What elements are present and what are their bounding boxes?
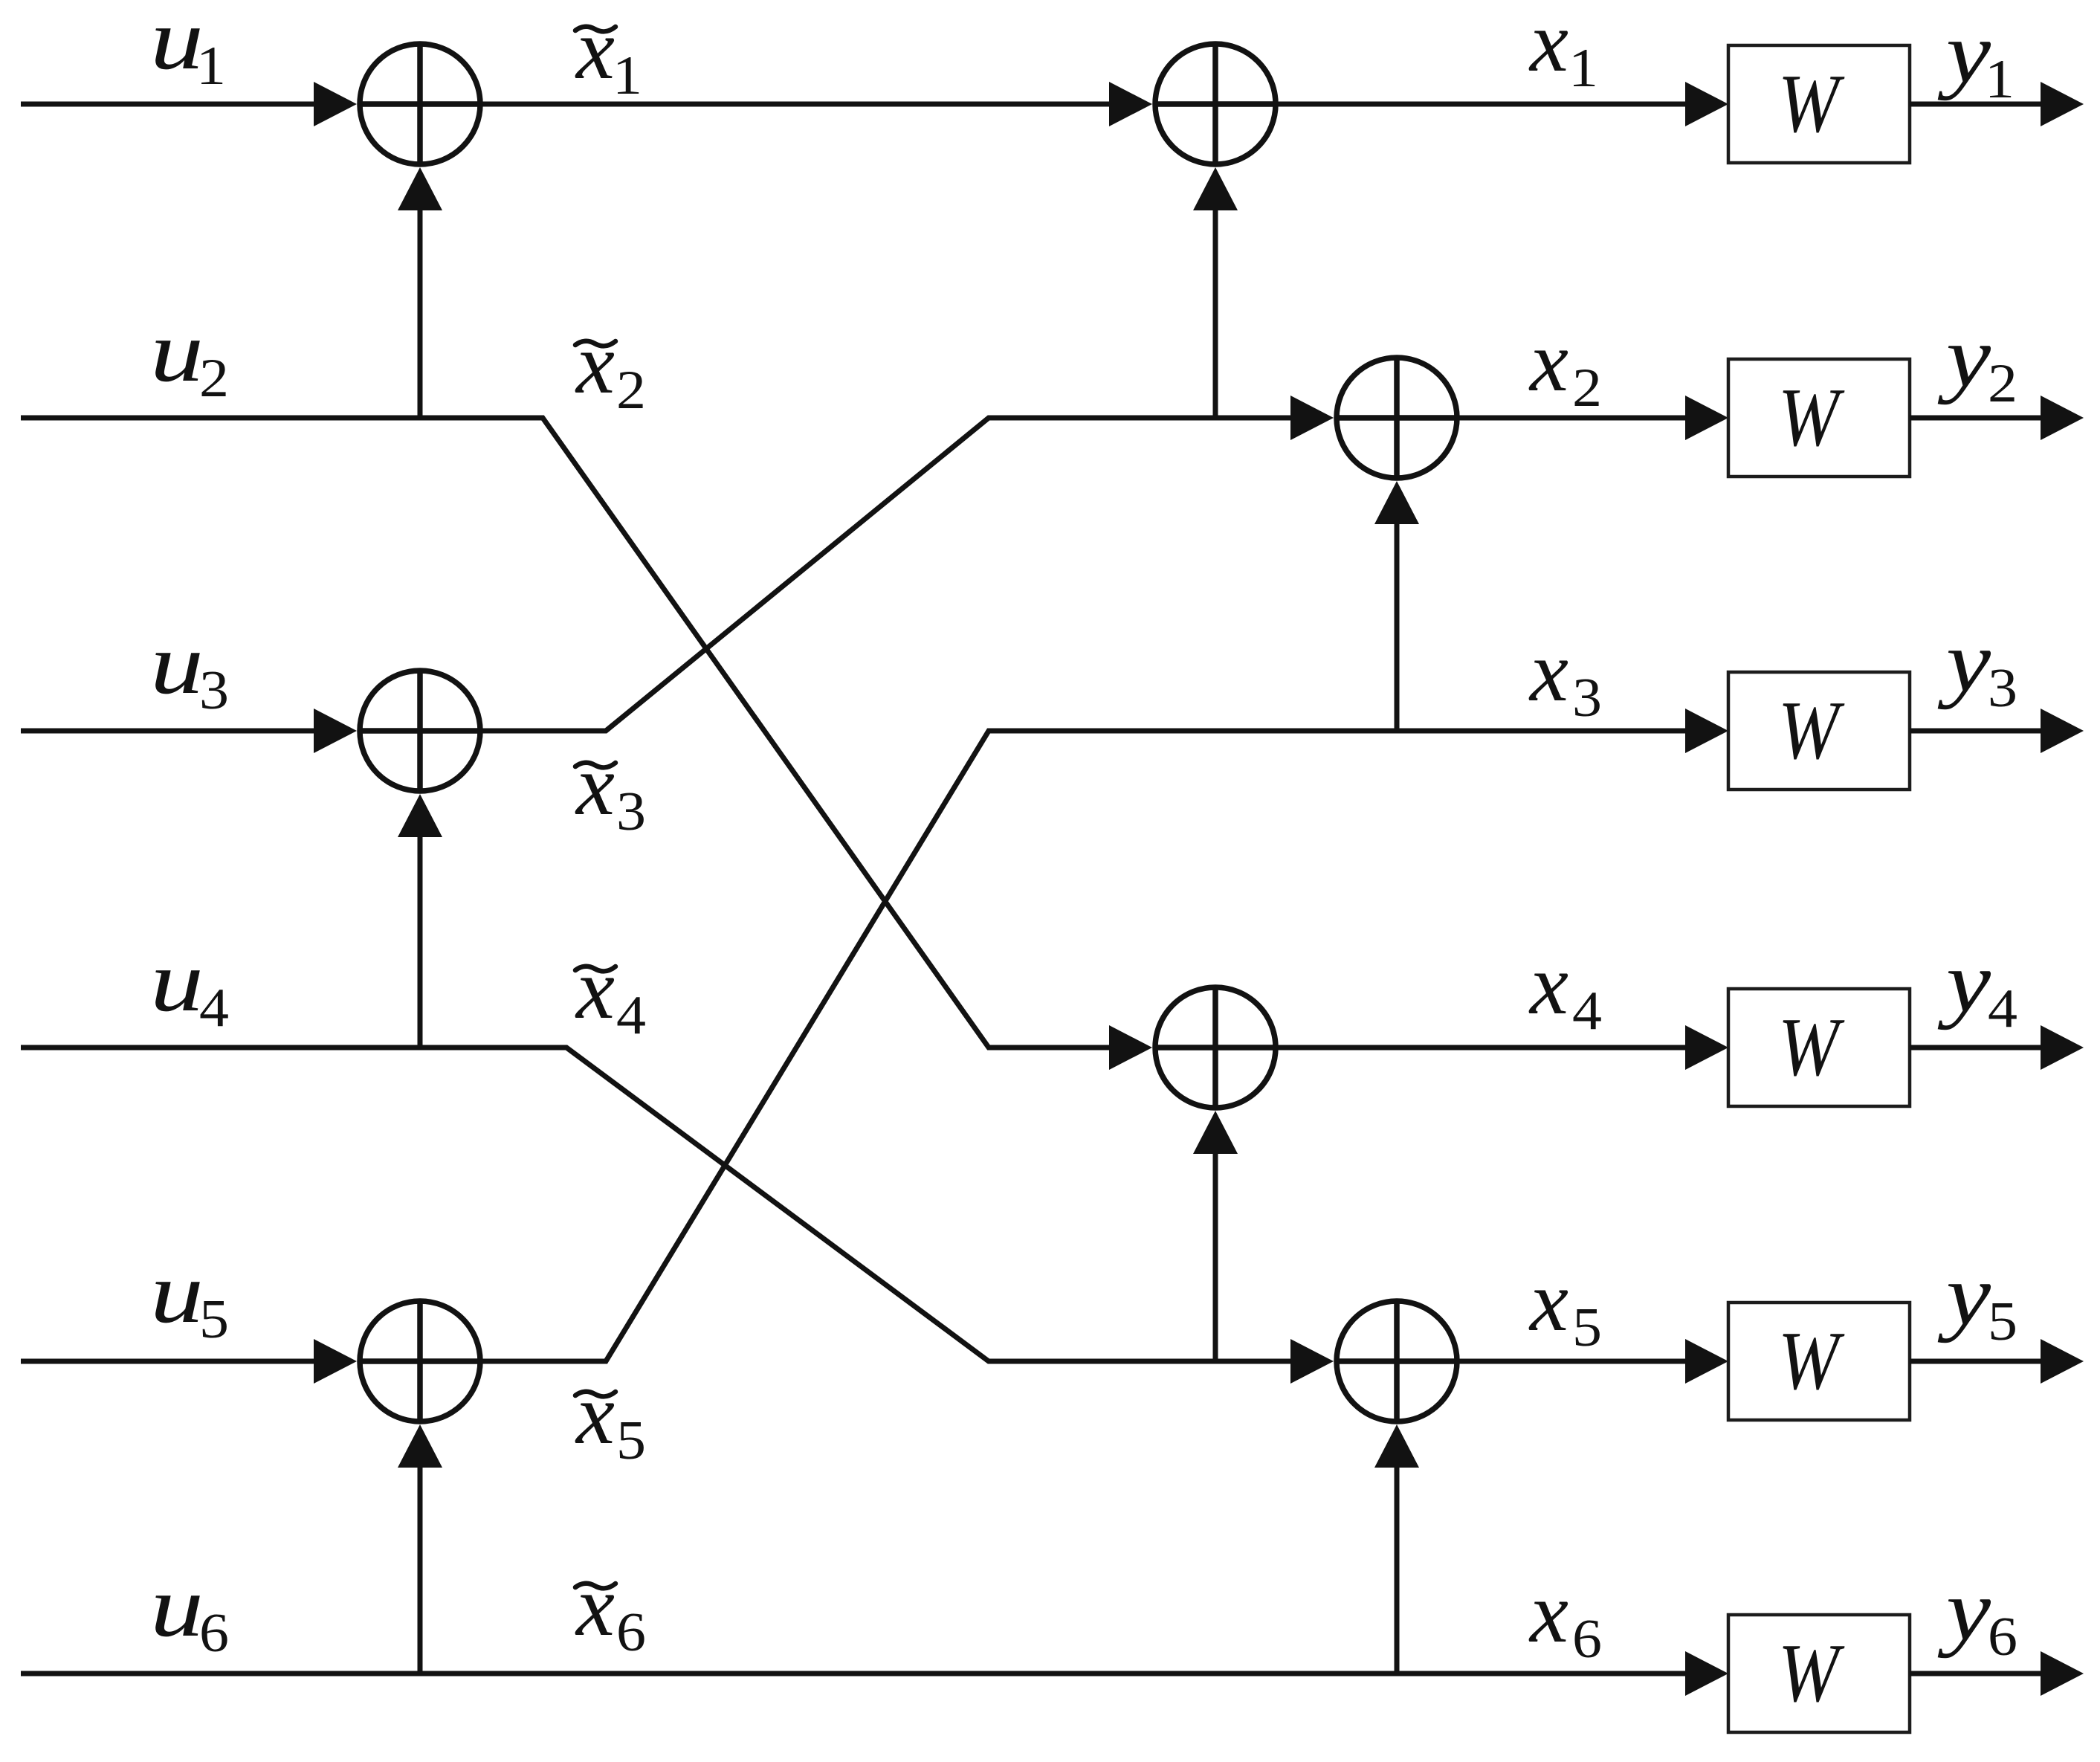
wire u4 with bend down to row5 (x~4 path) (21, 1048, 1334, 1384)
svg-text:y: y (1937, 935, 1991, 1030)
label u2 (150, 304, 229, 409)
label x1 (1528, 0, 1598, 99)
svg-text:x: x (575, 941, 615, 1037)
label y3 (1937, 614, 2017, 719)
wire x~1 (480, 82, 1152, 126)
wire y6 output (1910, 1651, 2084, 1696)
svg-text:W: W (1778, 1315, 1845, 1407)
channel block W row 4 (1728, 989, 1910, 1106)
svg-text:6: 6 (616, 1602, 646, 1663)
label y1 (1937, 5, 2015, 110)
svg-text:x: x (1528, 0, 1568, 90)
svg-text:x: x (1528, 1253, 1568, 1349)
svg-text:x: x (575, 1558, 615, 1654)
svg-text:W: W (1778, 58, 1845, 150)
channel block W row 1 (1728, 45, 1910, 163)
label x~4 (575, 941, 646, 1046)
label x~2 (575, 316, 646, 421)
svg-text:4: 4 (1988, 978, 2017, 1039)
XOR adder stage2 row2 (1337, 358, 1457, 478)
svg-text:1: 1 (1985, 49, 2015, 110)
XOR adder stage1 row3 (u3+u4) (360, 671, 480, 791)
svg-text:u: u (150, 1245, 204, 1341)
svg-text:y: y (1937, 5, 1991, 101)
svg-text:2: 2 (1988, 353, 2017, 414)
svg-text:5: 5 (199, 1289, 229, 1350)
label x~1 (575, 1, 642, 106)
vertical wire x~5 tap up into stage2 row2 adder (1374, 481, 1419, 731)
svg-text:6: 6 (1988, 1607, 2017, 1668)
svg-text:x: x (575, 738, 615, 833)
svg-text:W: W (1778, 1627, 1845, 1720)
wire x5 to channel (1457, 1339, 1728, 1384)
label x3 (1528, 624, 1602, 729)
XOR adder stage2 row5 (1337, 1301, 1457, 1421)
wire y3 output (1910, 709, 2084, 753)
channel block W row 3 (1728, 672, 1910, 790)
label y4 (1937, 935, 2017, 1039)
wire y2 output (1910, 396, 2084, 440)
svg-text:y: y (1937, 309, 1991, 405)
svg-text:y: y (1937, 1248, 1991, 1343)
svg-text:1: 1 (613, 45, 642, 106)
svg-text:W: W (1778, 1001, 1845, 1094)
XOR adder stage2 row4 (1155, 987, 1276, 1108)
label y6 (1937, 1563, 2017, 1668)
wire x2 to channel (1457, 396, 1728, 440)
svg-text:2: 2 (199, 348, 229, 409)
svg-text:x: x (1528, 937, 1568, 1033)
svg-text:5: 5 (1572, 1297, 1602, 1358)
label u1 (150, 0, 226, 97)
svg-text:4: 4 (616, 985, 646, 1046)
svg-text:u: u (150, 934, 204, 1030)
wire x1 to channel (1276, 82, 1728, 126)
svg-text:4: 4 (1572, 981, 1602, 1042)
vertical wire u4 tap up into stage1 row3 adder (398, 794, 442, 1048)
wire u2 with bend down to row4 (x~2 path) (21, 418, 1152, 1070)
svg-text:u: u (150, 1559, 204, 1655)
svg-text:x: x (1528, 1565, 1568, 1661)
svg-text:W: W (1778, 685, 1845, 777)
svg-text:5: 5 (616, 1410, 646, 1471)
label x2 (1528, 314, 1602, 419)
wire x~5 bend up to row3 toward channel (x3 path) (480, 709, 1728, 1361)
svg-text:4: 4 (199, 978, 229, 1039)
label u4 (150, 934, 229, 1039)
label y5 (1937, 1248, 2017, 1352)
wire y5 output (1910, 1339, 2084, 1384)
svg-text:2: 2 (1572, 358, 1602, 419)
svg-text:6: 6 (199, 1603, 229, 1664)
svg-text:y: y (1937, 614, 1991, 710)
wire u1 input (21, 82, 357, 126)
svg-text:1: 1 (1568, 38, 1598, 99)
channel block W row 2 (1728, 359, 1910, 477)
label x6 (1528, 1565, 1602, 1670)
label x5 (1528, 1253, 1602, 1358)
svg-text:x: x (1528, 624, 1568, 720)
wire y1 output (1910, 82, 2084, 126)
svg-text:3: 3 (616, 781, 646, 842)
svg-text:3: 3 (1988, 658, 2017, 719)
svg-text:x: x (575, 316, 615, 412)
XOR adder stage1 row1 (u1+u2) (360, 44, 480, 164)
label y2 (1937, 309, 2017, 414)
label x~3 (575, 738, 646, 842)
svg-text:x: x (575, 1366, 615, 1462)
vertical wire x~3 tap up into stage2 row1 adder (1193, 167, 1238, 418)
channel block W row 6 (1728, 1615, 1910, 1732)
svg-text:x: x (575, 1, 615, 97)
svg-text:y: y (1937, 1563, 1991, 1659)
channel block W row 5 (1728, 1303, 1910, 1420)
svg-text:1: 1 (196, 36, 226, 97)
vertical wire u6 tap up into stage1 row5 adder (398, 1424, 442, 1674)
wire u5 input (21, 1339, 357, 1384)
wire u3 input (21, 709, 357, 753)
svg-text:u: u (150, 616, 204, 712)
svg-text:6: 6 (1572, 1609, 1602, 1670)
XOR adder stage2 row1 (1155, 44, 1276, 164)
wire y4 output (1910, 1025, 2084, 1070)
label u3 (150, 616, 229, 721)
wire u6 straight through (x~6 / x6 path) (21, 1651, 1728, 1696)
wire x~3 bend up to row2 into stage2 row2 adder (480, 396, 1334, 731)
label u5 (150, 1245, 229, 1350)
XOR adder stage1 row5 (u5+u6) (360, 1301, 480, 1421)
label x4 (1528, 937, 1602, 1042)
vertical wire u2 tap up into stage1 row1 adder (398, 167, 442, 418)
vertical wire x~6 tap up into stage2 row5 adder (1374, 1424, 1419, 1674)
wire x4 to channel (1276, 1025, 1728, 1070)
label x~6 (575, 1558, 646, 1663)
svg-text:3: 3 (199, 660, 229, 721)
svg-text:x: x (1528, 314, 1568, 410)
svg-text:2: 2 (616, 360, 646, 421)
svg-text:u: u (150, 304, 204, 400)
vertical wire x~2 tap up into stage2 row4 adder (1193, 1111, 1238, 1361)
label u6 (150, 1559, 229, 1664)
svg-text:W: W (1778, 372, 1845, 464)
svg-text:5: 5 (1988, 1291, 2017, 1352)
label x~5 (575, 1366, 646, 1471)
svg-text:3: 3 (1572, 668, 1602, 729)
